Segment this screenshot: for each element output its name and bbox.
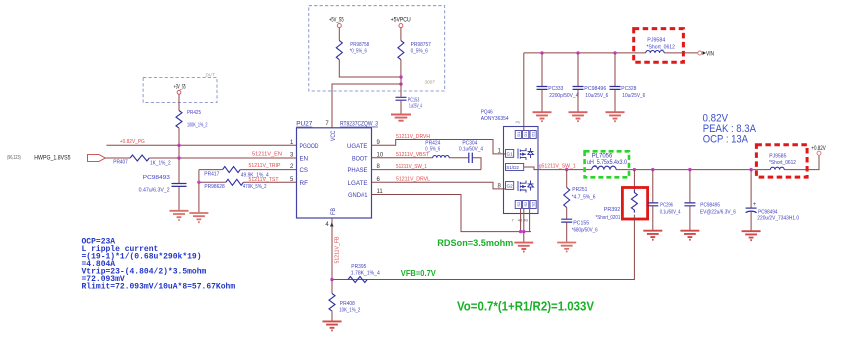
svg-text:+3V_S5: +3V_S5 <box>174 83 186 90</box>
svg-text:100K_1%_2: 100K_1%_2 <box>187 123 208 129</box>
wire junction to PC153 <box>400 84 402 97</box>
svg-text:FB: FB <box>330 208 337 215</box>
svg-text:UGATE: UGATE <box>347 143 368 150</box>
svg-text:51211V_EN: 51211V_EN <box>252 151 282 157</box>
svg-text:G1: G1 <box>507 152 514 157</box>
svg-text:VCC: VCC <box>330 130 337 141</box>
inductor PL7056 (green dashed box) <box>585 151 629 177</box>
svg-text:PJ9584: PJ9584 <box>647 38 665 44</box>
svg-text:PR392: PR392 <box>604 207 620 213</box>
svg-text:+5VPCU: +5VPCU <box>391 16 411 23</box>
wire EN line <box>149 157 296 159</box>
port HWPG_1.8VS5 <box>34 154 105 161</box>
svg-text:51211V_FB: 51211V_FB <box>335 236 341 263</box>
svg-text:uH_5.75x5.4x3.0: uH_5.75x5.4x3.0 <box>587 160 628 166</box>
svg-text:0_5%_6: 0_5%_6 <box>425 147 440 153</box>
capacitor PC333 <box>537 53 579 112</box>
svg-text:G2: G2 <box>507 184 514 189</box>
svg-text:Vo=0.7*(1+R1/R2)=1.033V: Vo=0.7*(1+R1/R2)=1.033V <box>457 298 594 313</box>
power terminal +5V_S5 <box>329 16 344 27</box>
node RF bus junction <box>197 181 200 184</box>
wire EN junction to PC98493 <box>178 158 180 183</box>
svg-text:PR424: PR424 <box>425 140 440 146</box>
svg-text:Rlimit=72.093mV/10uA*8=57.67Ko: Rlimit=72.093mV/10uA*8=57.67Kohm <box>82 283 236 292</box>
svg-text:470K_5%_2: 470K_5%_2 <box>243 184 267 190</box>
wire CS stub <box>199 169 223 171</box>
svg-text:1.78K_1%_4: 1.78K_1%_4 <box>351 270 380 276</box>
wire PR392 to FB line <box>332 215 634 280</box>
svg-text:S1/D2: S1/D2 <box>506 165 519 170</box>
svg-text:DVT: DVT <box>206 72 216 77</box>
svg-text:+0.82V: +0.82V <box>811 145 826 152</box>
svg-text:PR395: PR395 <box>351 264 366 270</box>
svg-text:PGOOD: PGOOD <box>300 143 319 150</box>
svg-text:10u/25V_6: 10u/25V_6 <box>585 93 608 99</box>
resistor PR408 <box>329 280 360 314</box>
power terminal +3V_S5 <box>174 83 186 94</box>
svg-text:PR407: PR407 <box>113 160 128 166</box>
transistor PQ46 AONY36354 (dual MOSFET) <box>481 109 538 213</box>
ground (PC155) <box>557 243 576 252</box>
ground (PQ46 source) <box>514 243 533 252</box>
svg-text:OCP : 13A: OCP : 13A <box>703 134 749 146</box>
wire gnd stub <box>523 232 525 242</box>
svg-text:+5V_S5: +5V_S5 <box>329 16 344 23</box>
wire PHASE <box>372 169 482 171</box>
wire LGATE to G2 <box>372 182 506 189</box>
wire PR424 to PC304 <box>449 157 468 159</box>
power terminal +5VPCU <box>391 16 411 27</box>
svg-text:S2: S2 <box>516 201 521 207</box>
capacitor PC98494 (polarized) <box>746 170 800 231</box>
wire CS line <box>240 169 296 171</box>
svg-text:CS: CS <box>300 167 309 174</box>
wire +0.82V_PG <box>106 144 296 146</box>
svg-text:D1: D1 <box>516 131 521 137</box>
svg-text:3007: 3007 <box>425 80 436 85</box>
svg-text:PL7056: PL7056 <box>592 153 613 159</box>
ground (PC333) <box>533 112 552 121</box>
svg-text:+0.82V_PG: +0.82V_PG <box>120 139 145 145</box>
capacitor PC296 <box>647 170 680 230</box>
svg-text:PR251: PR251 <box>572 187 587 193</box>
wire +5V_S5 to PR98758 <box>338 28 340 41</box>
wire RF line <box>243 181 296 183</box>
svg-text:40 40: 40 40 <box>518 218 529 223</box>
ground (PC98495) <box>680 231 699 240</box>
svg-text:10u/25V_6: 10u/25V_6 <box>622 93 645 99</box>
svg-text:VIN: VIN <box>706 51 714 58</box>
wire junction down <box>400 77 402 84</box>
svg-text:PC98493: PC98493 <box>143 175 170 181</box>
svg-text:PQ46: PQ46 <box>481 109 493 115</box>
terminal VIN <box>698 51 714 58</box>
resistor PR395 <box>348 264 380 283</box>
ground (PC98494) <box>742 231 761 240</box>
svg-text:0.1u/50V_4: 0.1u/50V_4 <box>459 147 483 153</box>
wire PR98758 to junction <box>339 60 401 77</box>
svg-text:D1: D1 <box>531 131 536 137</box>
node EN junction <box>177 156 180 159</box>
annotation output spec <box>703 113 757 146</box>
terminal +0.82V <box>811 145 826 155</box>
resistor PR251 <box>564 170 596 208</box>
svg-text:220u/2V_7343H1.0: 220u/2V_7343H1.0 <box>757 216 799 222</box>
svg-text:1u/25V_4: 1u/25V_4 <box>409 104 422 110</box>
svg-text:PC333: PC333 <box>548 86 563 92</box>
svg-text:EN: EN <box>300 155 309 162</box>
resistor PR417 <box>204 167 268 179</box>
svg-text:PR98757: PR98757 <box>411 42 431 48</box>
capacitor PC98493 <box>139 175 187 193</box>
wire PG to EN junction <box>178 145 180 158</box>
wire port to PR407 <box>105 157 130 159</box>
svg-text:PC304: PC304 <box>462 140 477 146</box>
svg-text:0_5%_6: 0_5%_6 <box>411 49 428 55</box>
svg-text:*4.7_5%_6: *4.7_5%_6 <box>572 194 596 200</box>
svg-text:*Short_0612: *Short_0612 <box>647 45 676 51</box>
capacitor PC304 <box>459 140 483 163</box>
svg-text:*680p/50V_6: *680p/50V_6 <box>572 227 598 233</box>
wire PR408 to ground <box>331 311 333 321</box>
svg-text:PC98495: PC98495 <box>700 203 720 209</box>
wire VIN rail <box>524 52 698 54</box>
wire RF stub <box>199 181 226 183</box>
svg-text:RDSon=3.5mohm: RDSon=3.5mohm <box>437 238 513 248</box>
ground (PC296) <box>643 231 662 240</box>
ground (PC98493) <box>170 211 189 220</box>
wire S1/D2 to rail <box>524 167 538 170</box>
resistor PR98628 <box>204 179 266 190</box>
ground (PC98496) <box>569 112 588 121</box>
svg-text:RF: RF <box>300 180 309 187</box>
svg-text:PR408: PR408 <box>340 301 355 307</box>
wire drain to VIN rail <box>523 53 525 131</box>
wire FB vertical <box>331 218 333 280</box>
svg-text:51211V_DRVL: 51211V_DRVL <box>396 177 430 183</box>
svg-text:PU27: PU27 <box>296 121 313 128</box>
svg-text:PR98758: PR98758 <box>350 42 369 48</box>
resistor PR98758 <box>336 41 369 60</box>
wire PC153 to ground <box>400 101 402 114</box>
wire PR98757 to junction <box>400 60 402 77</box>
capacitor PC155 <box>561 219 598 242</box>
wire to VCC pin <box>332 84 401 128</box>
capacitor PC153 <box>396 97 423 109</box>
power flag box DVT <box>143 72 217 102</box>
wire +3V_S5 to PR425 <box>178 94 180 110</box>
node VCC tee <box>399 82 402 85</box>
transistor Q1 symbol <box>518 148 534 160</box>
jumper PJ9584 (red dashed box) <box>634 29 684 63</box>
resistor PR424 (coil style) <box>425 140 449 158</box>
svg-text:10K_1%_2: 10K_1%_2 <box>339 308 360 314</box>
node SW junctions <box>565 168 753 171</box>
svg-text:0.47u/6.3V_2: 0.47u/6.3V_2 <box>139 188 170 194</box>
svg-text:S2: S2 <box>523 201 528 207</box>
wire PR251 to PC155 <box>566 208 568 219</box>
wire PR425 to PG line <box>178 128 180 145</box>
capacitor PC98496 <box>573 53 609 112</box>
svg-text:PC153: PC153 <box>408 97 420 103</box>
svg-text:0.1u/50V_4: 0.1u/50V_4 <box>660 210 681 216</box>
svg-text:VFB=0.7V: VFB=0.7V <box>401 268 436 278</box>
wire SW rail <box>538 155 819 169</box>
node VCC junction <box>399 75 402 78</box>
svg-text:PC328: PC328 <box>621 86 636 92</box>
svg-text:*Short_0612: *Short_0612 <box>769 160 796 166</box>
svg-text:RT8237CZQW_3: RT8237CZQW_3 <box>340 121 378 128</box>
svg-text:PC155: PC155 <box>573 220 589 226</box>
wire PC304 to PHASE line <box>473 158 481 170</box>
capacitor PC328 <box>610 53 646 112</box>
svg-text:PJ9585: PJ9585 <box>769 153 786 159</box>
svg-text:g51211V_SW_1: g51211V_SW_1 <box>539 164 576 170</box>
ground (PC328) <box>606 112 625 121</box>
svg-text:PR98628: PR98628 <box>204 184 224 190</box>
svg-text:51211V_TRIP: 51211V_TRIP <box>249 163 281 169</box>
resistor PR425 <box>176 110 208 129</box>
capacitor PC98495 <box>684 170 736 230</box>
svg-text:BOOT: BOOT <box>352 155 368 162</box>
node PG junction <box>177 144 180 147</box>
annotation OCP calculations <box>82 238 236 292</box>
svg-text:2200p/50V_4: 2200p/50V_4 <box>549 93 578 99</box>
svg-text:*0_5%_6: *0_5%_6 <box>350 49 367 55</box>
svg-text:HWPG_1.8VS5: HWPG_1.8VS5 <box>34 154 70 161</box>
svg-text:*Short_0201: *Short_0201 <box>596 215 621 221</box>
resistor PR407 <box>113 155 170 167</box>
svg-text:PC296: PC296 <box>660 203 673 209</box>
svg-text:D1: D1 <box>523 131 528 137</box>
ground (PC153) <box>391 115 411 121</box>
svg-text:PC98496: PC98496 <box>584 86 606 92</box>
wire SW to PR392 <box>633 170 635 190</box>
wire CS-RF bus to ground <box>198 170 200 213</box>
wire UGATE to G1 <box>372 140 506 154</box>
resistor PR98757 <box>398 41 431 60</box>
node VIN junctions <box>540 51 616 54</box>
svg-text:GND#1: GND#1 <box>348 192 368 199</box>
svg-text:LGATE: LGATE <box>348 180 368 187</box>
wire BOOT to PR424 <box>372 157 433 159</box>
node FB arrow <box>330 222 334 226</box>
wire S2 pins to gnd rail <box>521 209 530 232</box>
svg-text:PR417: PR417 <box>204 171 219 177</box>
svg-text:Pb: Pb <box>516 121 521 125</box>
svg-text:PR425: PR425 <box>187 110 201 116</box>
svg-text:(96,123): (96,123) <box>7 155 21 161</box>
wire GND#1 to source node <box>372 195 532 232</box>
node FB junction <box>330 278 333 281</box>
node S2 junctions <box>519 230 526 233</box>
svg-text:EV@22u/6.3V_6: EV@22u/6.3V_6 <box>700 210 736 216</box>
svg-text:S2: S2 <box>531 201 536 207</box>
svg-text:PHASE: PHASE <box>348 167 368 174</box>
transistor Q2 symbol <box>518 181 534 193</box>
wire PC98493 to ground <box>178 187 180 210</box>
ground (CS-RF bus) <box>189 213 208 222</box>
svg-text:+: + <box>753 202 757 208</box>
wire +5VPCU to PR98757 <box>400 28 402 41</box>
svg-text:AONY36354: AONY36354 <box>481 116 509 122</box>
resistor PR392 (red highlight box) <box>596 188 648 221</box>
power select box (dashed) <box>309 6 445 91</box>
ground (PR408) <box>323 321 342 330</box>
jumper PJ9585 (red dashed box) <box>756 145 807 177</box>
svg-text:1K_1%_2: 1K_1%_2 <box>150 161 171 167</box>
IC PU27 RT8237CZQW_3 (buck controller) <box>296 121 378 218</box>
